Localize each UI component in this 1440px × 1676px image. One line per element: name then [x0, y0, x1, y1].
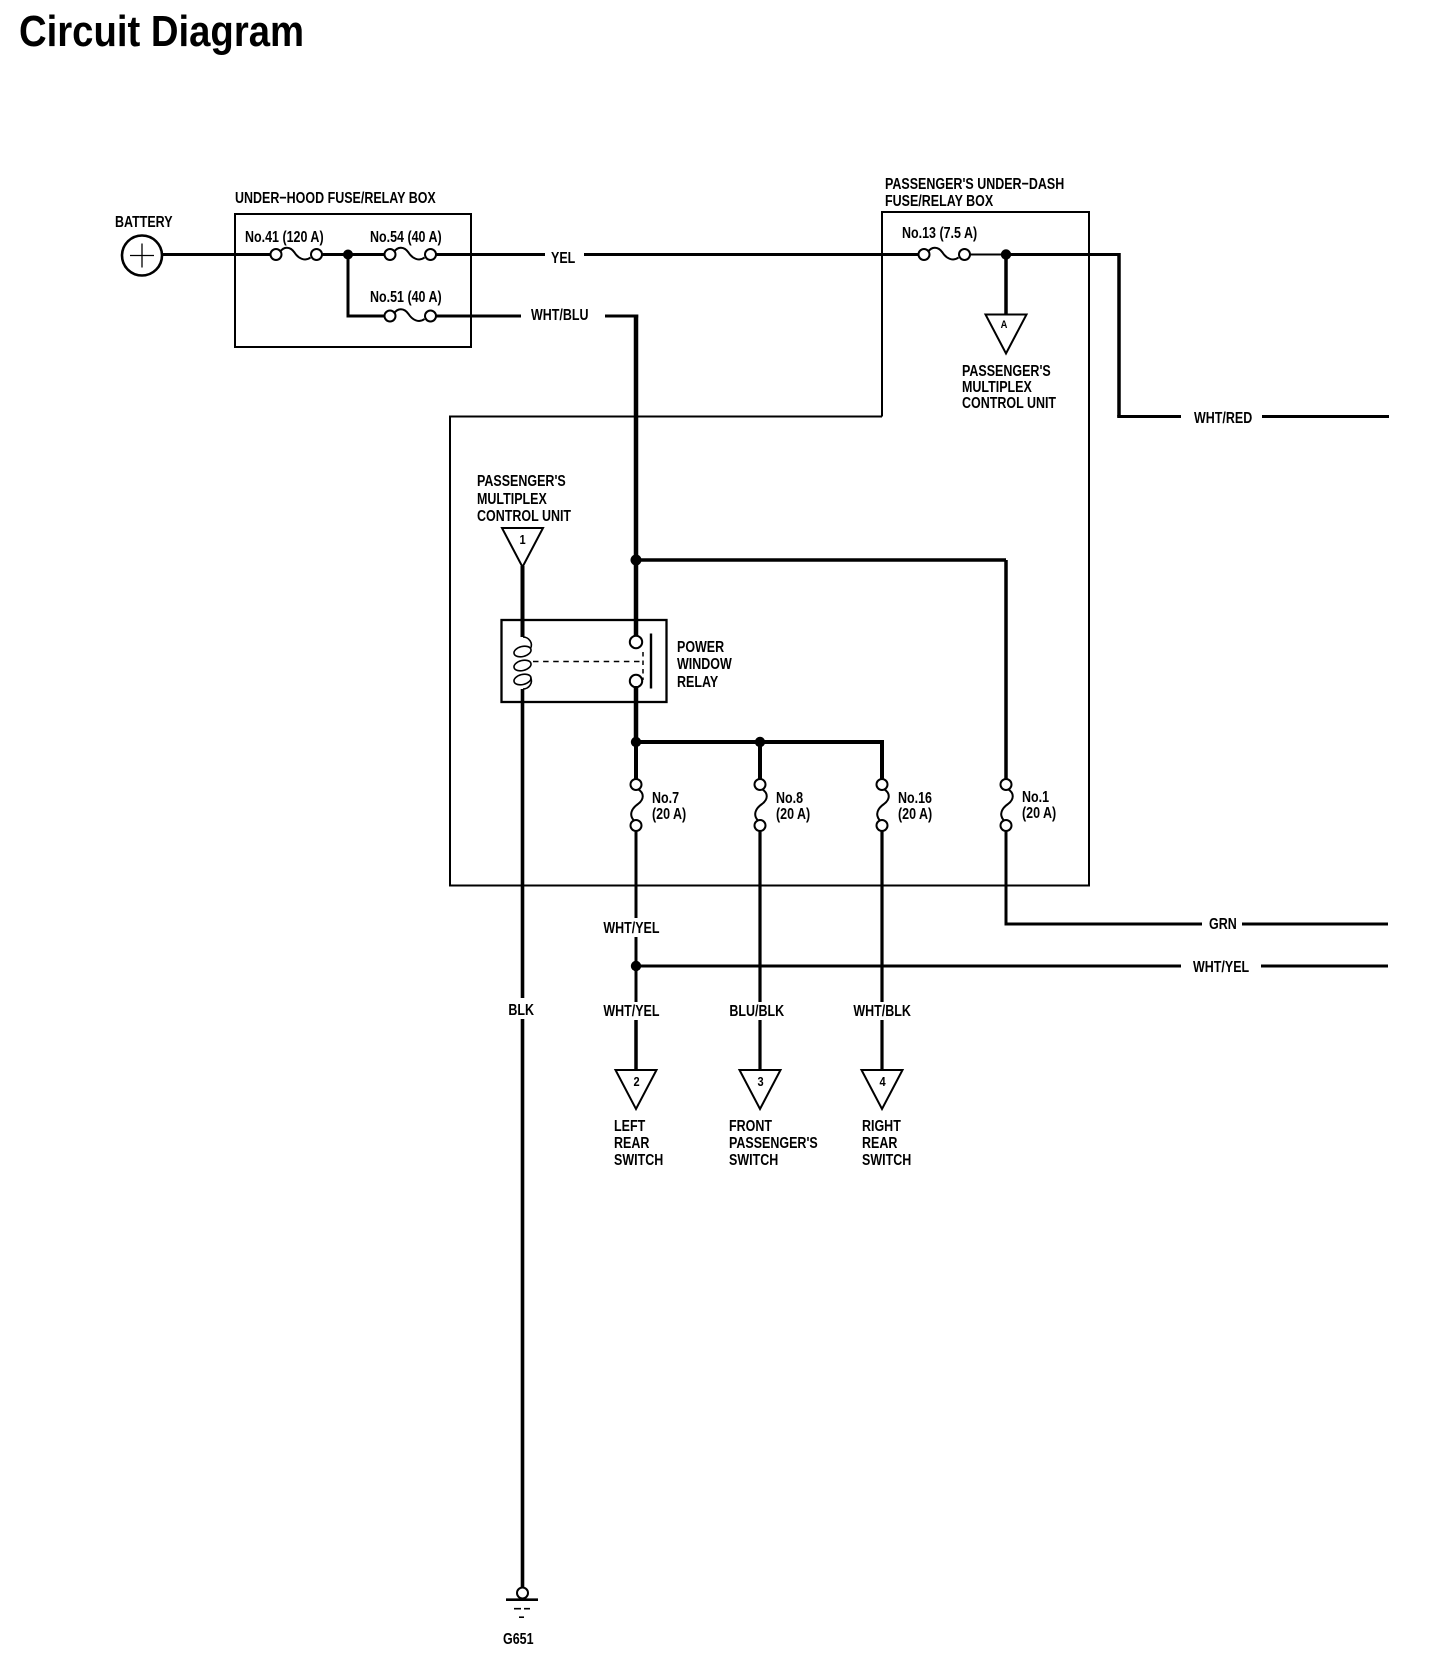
relay contact bar	[650, 634, 652, 689]
node junction under-hood	[343, 250, 353, 260]
label BLU/BLK	[727, 1004, 786, 1020]
label LEFT REAR SWITCH	[614, 1118, 663, 1170]
pin A	[1001, 319, 1008, 331]
connector triangle 3	[740, 1070, 781, 1109]
wire junction down to No.51	[348, 255, 385, 317]
connector triangle 4	[862, 1070, 903, 1109]
ground G651 symbol	[517, 1588, 528, 1599]
battery B1	[122, 236, 162, 276]
wire fuse41 to fuse54	[322, 253, 385, 256]
label A PASSENGER'S MULTIPLEX CONTROL UNIT	[962, 364, 1056, 413]
relay coil	[513, 637, 532, 689]
wire relay coil down (BLK column upper)	[521, 689, 525, 998]
thin link fuse13 to node	[970, 254, 1001, 256]
label WHT/RED	[1194, 411, 1252, 427]
label fuse No.54	[370, 230, 442, 246]
wire WHT/RED vertical	[1117, 253, 1121, 417]
stub down to fuse No.8	[758, 742, 762, 779]
fuse No.41 (120 A)	[271, 248, 323, 260]
label fuse No.13	[902, 226, 977, 242]
connector triangle 2	[616, 1070, 657, 1109]
wire node to right corner	[1006, 253, 1119, 256]
wire WHT/RED right segment	[1262, 415, 1389, 418]
wire down to fuse No.1	[1004, 560, 1008, 779]
under-hood fuse/relay box	[235, 214, 471, 347]
label BLK	[506, 1003, 536, 1019]
label WHT/YEL lower column	[601, 1004, 662, 1020]
wire WHT/BLK column	[880, 831, 883, 1070]
node at 636,742	[631, 737, 641, 747]
wire WHT/BLU vertical down to relay contact	[634, 315, 639, 637]
label GRN	[1209, 917, 1237, 933]
label 1 PASSENGER'S MULTIPLEX CONTROL UNIT	[477, 473, 571, 525]
fuse No.8 (20 A)	[755, 779, 767, 831]
wire WHT/BLU corner segment	[605, 315, 638, 318]
stub down to fuse No.7	[634, 742, 638, 779]
wire YEL right segment	[584, 253, 919, 256]
label fuse No.7	[652, 791, 686, 824]
label YEL	[551, 251, 575, 267]
wire WHT/YEL row left segment	[636, 965, 1181, 968]
wire triangle1 to relay coil	[521, 566, 525, 637]
wire WHT/RED stub	[1117, 415, 1181, 418]
label WHT/YEL upper column	[601, 921, 662, 937]
node junction on WHT/BLU feeding No.1	[636, 558, 1006, 562]
fuse No.7 (20 A)	[631, 779, 643, 831]
label fuse No.8	[776, 791, 810, 824]
wire WHT/YEL row right segment	[1261, 965, 1388, 968]
label UNDER-HOOD FUSE/RELAY BOX	[235, 191, 436, 207]
label fuse No.16	[898, 791, 932, 824]
fuse No.54 (40 A)	[385, 248, 437, 260]
label PASSENGER'S UNDER-DASH FUSE/RELAY BOX	[885, 176, 1064, 211]
label BATTERY	[115, 215, 173, 231]
node at 760,742	[755, 737, 765, 747]
pin 3	[757, 1074, 763, 1089]
wire GRN column from fuse No.1	[1005, 831, 1008, 924]
wire relay contact to junction row	[634, 686, 639, 742]
relay contact circles	[630, 636, 642, 648]
stub down to fuse No.16	[880, 740, 884, 779]
label fuse No.1	[1022, 790, 1056, 823]
relay armature dashed line	[533, 661, 644, 663]
wire column 636 mid	[635, 936, 638, 1002]
wire column 636 lower to triangle 2	[634, 1020, 638, 1070]
fuse No.51 (40 A)	[385, 309, 437, 321]
node WHT/YEL junction	[631, 961, 641, 971]
fuse No.16 (20 A)	[877, 779, 889, 831]
wire GRN row left segment	[1005, 923, 1203, 926]
pin 2	[633, 1074, 639, 1089]
pin 1	[520, 532, 526, 547]
wire node down to triangle A	[1004, 255, 1008, 315]
wire YEL left segment	[436, 253, 545, 256]
label WHT/BLU	[531, 308, 589, 324]
label fuse No.41	[245, 230, 324, 246]
wire battery to fuse No.41	[162, 253, 271, 256]
wire WHT/BLU left segment	[436, 315, 521, 318]
connector triangle 1	[502, 528, 543, 567]
label G651	[503, 1632, 534, 1648]
label POWER WINDOW RELAY	[677, 639, 732, 692]
label WHT/BLK	[851, 1004, 913, 1020]
fuse No.13 (7.5 A)	[919, 248, 971, 260]
label FRONT PASSENGER'S SWITCH	[729, 1118, 818, 1170]
fuse No.1 (20 A)	[1001, 779, 1013, 831]
wire BLU/BLK column	[758, 831, 761, 1070]
title	[19, 10, 304, 54]
power window relay box	[502, 620, 667, 702]
label fuse No.51	[370, 290, 442, 306]
wire WHT/YEL column below fuse No.7 upper	[635, 831, 638, 918]
node after fuse13	[1001, 249, 1011, 259]
wire GRN row right segment	[1242, 923, 1388, 926]
connector triangle A	[986, 315, 1027, 354]
wire BLK column lower to ground	[521, 1019, 525, 1588]
pin 4	[879, 1074, 885, 1089]
label WHT/YEL right	[1193, 960, 1249, 976]
junction row horizontal wire	[636, 740, 882, 744]
passenger's under-dash fuse/relay box outline merged with control-unit box	[450, 212, 1089, 886]
label RIGHT REAR SWITCH	[862, 1118, 911, 1170]
